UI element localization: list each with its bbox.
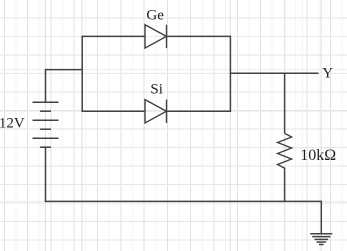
wire resistor bottom — [284, 170, 286, 201]
wire resistor top — [284, 73, 286, 133]
diode D1 Ge — [145, 25, 167, 48]
wire top branch right — [167, 35, 231, 37]
svg-text:12V: 12V — [0, 115, 25, 131]
wire top branch left — [82, 35, 145, 37]
svg-text:Si: Si — [150, 82, 163, 98]
wire battery negative stub — [45, 147, 47, 201]
ground — [310, 234, 332, 245]
wire Si branch right — [167, 110, 231, 112]
battery B1 — [33, 102, 59, 147]
wire right junction vertical — [229, 36, 231, 112]
svg-text:Ge: Ge — [146, 7, 164, 23]
svg-text:Y: Y — [322, 66, 333, 82]
wire Si branch left — [82, 110, 145, 112]
wire left junction vertical — [81, 36, 83, 112]
wire bottom rail — [45, 200, 322, 202]
diode D2 Si — [145, 100, 167, 123]
resistor R1 — [278, 133, 292, 170]
svg-text:10kΩ: 10kΩ — [300, 147, 336, 164]
wire to ground — [320, 201, 322, 234]
wire battery positive to left node — [46, 70, 83, 103]
wire output Y — [230, 72, 318, 74]
